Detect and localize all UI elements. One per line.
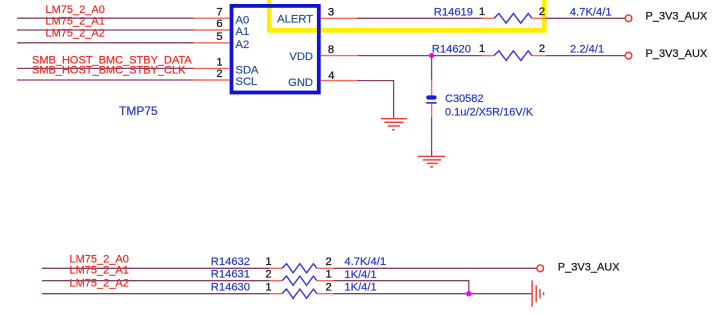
pin stub SDA pin1	[194, 67, 230, 69]
svg-text:LM75_2_A0: LM75_2_A0	[70, 253, 129, 265]
wire R14630 to ground	[334, 293, 532, 295]
svg-text:2: 2	[539, 6, 545, 18]
svg-text:LM75_2_A0: LM75_2_A0	[46, 4, 105, 16]
svg-text:2: 2	[325, 256, 331, 268]
resistor R14632 stub left	[270, 267, 283, 269]
svg-text:2.2/4/1: 2.2/4/1	[570, 44, 604, 56]
pin stub VDD pin8	[321, 55, 358, 57]
wire VDD junction down to C30582	[431, 56, 433, 80]
pin stub ALERT pin3	[321, 17, 357, 19]
capacitor C30582 stub bottom	[431, 104, 433, 117]
svg-text:SDA: SDA	[236, 64, 260, 76]
wire ALERT to R14619	[357, 17, 482, 19]
resistor R14619 body	[494, 14, 532, 24]
svg-text:0.1u/2/X5R/16V/K: 0.1u/2/X5R/16V/K	[445, 107, 534, 119]
pin stub A1 pin6	[194, 29, 230, 31]
resistor R14620 body	[494, 51, 532, 61]
wire net LM75_2_A0	[17, 17, 194, 19]
svg-text:2: 2	[325, 281, 331, 293]
junction node R14631/R14630	[466, 291, 471, 296]
svg-text:1K/4/1: 1K/4/1	[344, 269, 376, 281]
highlight net ALERT (yellow)	[269, 0, 544, 30]
capacitor C30582 stub top	[431, 80, 433, 96]
wire net SMB_HOST_BMC_STBY_DATA	[17, 67, 194, 69]
wire net SMB_HOST_BMC_STBY_CLK	[17, 79, 194, 81]
svg-text:LM75_2_A1: LM75_2_A1	[46, 15, 105, 27]
resistor R14631 stub left	[270, 280, 283, 282]
svg-text:P_3V3_AUX: P_3V3_AUX	[646, 48, 708, 60]
pin stub A0 pin7	[194, 17, 230, 19]
svg-text:4: 4	[328, 70, 334, 82]
svg-text:R14620: R14620	[432, 44, 471, 56]
svg-text:6: 6	[216, 18, 222, 30]
wire net LM75_2_A1 (bottom)	[42, 280, 270, 282]
svg-text:P_3V3_AUX: P_3V3_AUX	[646, 10, 708, 22]
resistor R14632 body	[282, 264, 317, 273]
pin stub GND pin4	[321, 80, 357, 82]
ground (below C30582)	[418, 156, 445, 167]
pin stub A2 pin5	[194, 42, 230, 44]
svg-text:R14631: R14631	[211, 269, 250, 281]
svg-text:P_3V3_AUX: P_3V3_AUX	[558, 262, 620, 274]
svg-text:3: 3	[328, 6, 334, 18]
svg-text:1: 1	[265, 281, 271, 293]
svg-text:C30582: C30582	[445, 93, 484, 105]
wire R14632 to P_3V3_AUX	[334, 267, 538, 269]
wire net LM75_2_A2	[17, 42, 194, 44]
svg-text:ALERT: ALERT	[277, 14, 313, 26]
svg-text:A1: A1	[236, 26, 250, 38]
svg-text:5: 5	[216, 31, 222, 43]
wire net LM75_2_A0 (bottom)	[42, 267, 270, 269]
svg-text:VDD: VDD	[289, 51, 313, 63]
svg-text:1: 1	[325, 269, 331, 281]
off-page connector P_3V3_AUX (VDD row)	[625, 52, 632, 59]
wire net LM75_2_A1	[17, 29, 194, 31]
IC U1 TMP75 (temperature sensor) body	[232, 6, 319, 93]
svg-text:1: 1	[216, 56, 222, 68]
svg-text:1: 1	[265, 256, 271, 268]
svg-text:R14632: R14632	[211, 256, 250, 268]
svg-text:LM75_2_A2: LM75_2_A2	[70, 277, 129, 289]
svg-text:1: 1	[479, 43, 485, 55]
resistor R14619 stub right	[532, 17, 546, 19]
wire C30582 to ground	[431, 117, 433, 156]
resistor R14619 stub left	[482, 17, 495, 19]
svg-text:GND: GND	[288, 77, 313, 89]
svg-text:LM75_2_A2: LM75_2_A2	[46, 28, 105, 40]
capacitor C30582 top plate	[426, 95, 436, 99]
svg-text:TMP75: TMP75	[119, 104, 158, 118]
junction node VDD/C30582	[429, 53, 434, 58]
wire net LM75_2_A2 (bottom)	[42, 293, 270, 295]
resistor R14631 body	[282, 276, 317, 285]
svg-text:R14630: R14630	[211, 281, 250, 293]
svg-text:1: 1	[479, 6, 485, 18]
svg-text:2: 2	[216, 68, 222, 80]
wire GND to ground	[357, 81, 394, 118]
svg-text:1K/4/1: 1K/4/1	[344, 282, 376, 294]
resistor R14630 stub left	[270, 293, 283, 295]
off-page connector P_3V3_AUX (bottom)	[537, 265, 544, 272]
resistor R14620 stub right	[532, 55, 546, 57]
wire R14619 to P_3V3_AUX	[546, 17, 625, 19]
pin stub SCL pin2	[194, 79, 230, 81]
svg-text:R14619: R14619	[434, 6, 473, 18]
resistor R14630 body	[282, 289, 317, 298]
svg-text:4.7K/4/1: 4.7K/4/1	[344, 256, 386, 268]
svg-text:A2: A2	[236, 39, 250, 51]
svg-text:SCL: SCL	[236, 76, 258, 88]
wire VDD to R14620	[357, 55, 481, 57]
svg-text:2: 2	[265, 269, 271, 281]
svg-text:7: 7	[216, 7, 222, 19]
resistor R14620 stub left	[482, 55, 495, 57]
svg-text:2: 2	[539, 43, 545, 55]
svg-text:8: 8	[328, 44, 334, 56]
capacitor C30582 bottom plate	[426, 102, 436, 104]
resistor R14631 stub right	[317, 280, 334, 282]
resistor R14632 stub right	[317, 267, 334, 269]
svg-text:4.7K/4/1: 4.7K/4/1	[570, 7, 612, 19]
wire R14620 to P_3V3_AUX	[546, 55, 625, 57]
ground (GND pin net)	[381, 119, 407, 130]
svg-text:A0: A0	[236, 14, 250, 26]
svg-text:LM75_2_A1: LM75_2_A1	[70, 265, 129, 277]
wire R14631 to junction	[334, 281, 469, 294]
resistor R14630 stub right	[317, 293, 334, 295]
svg-text:SMB_HOST_BMC_STBY_CLK: SMB_HOST_BMC_STBY_CLK	[32, 65, 186, 77]
ground (bottom, rotated)	[532, 280, 544, 307]
off-page connector P_3V3_AUX (top)	[625, 15, 632, 22]
